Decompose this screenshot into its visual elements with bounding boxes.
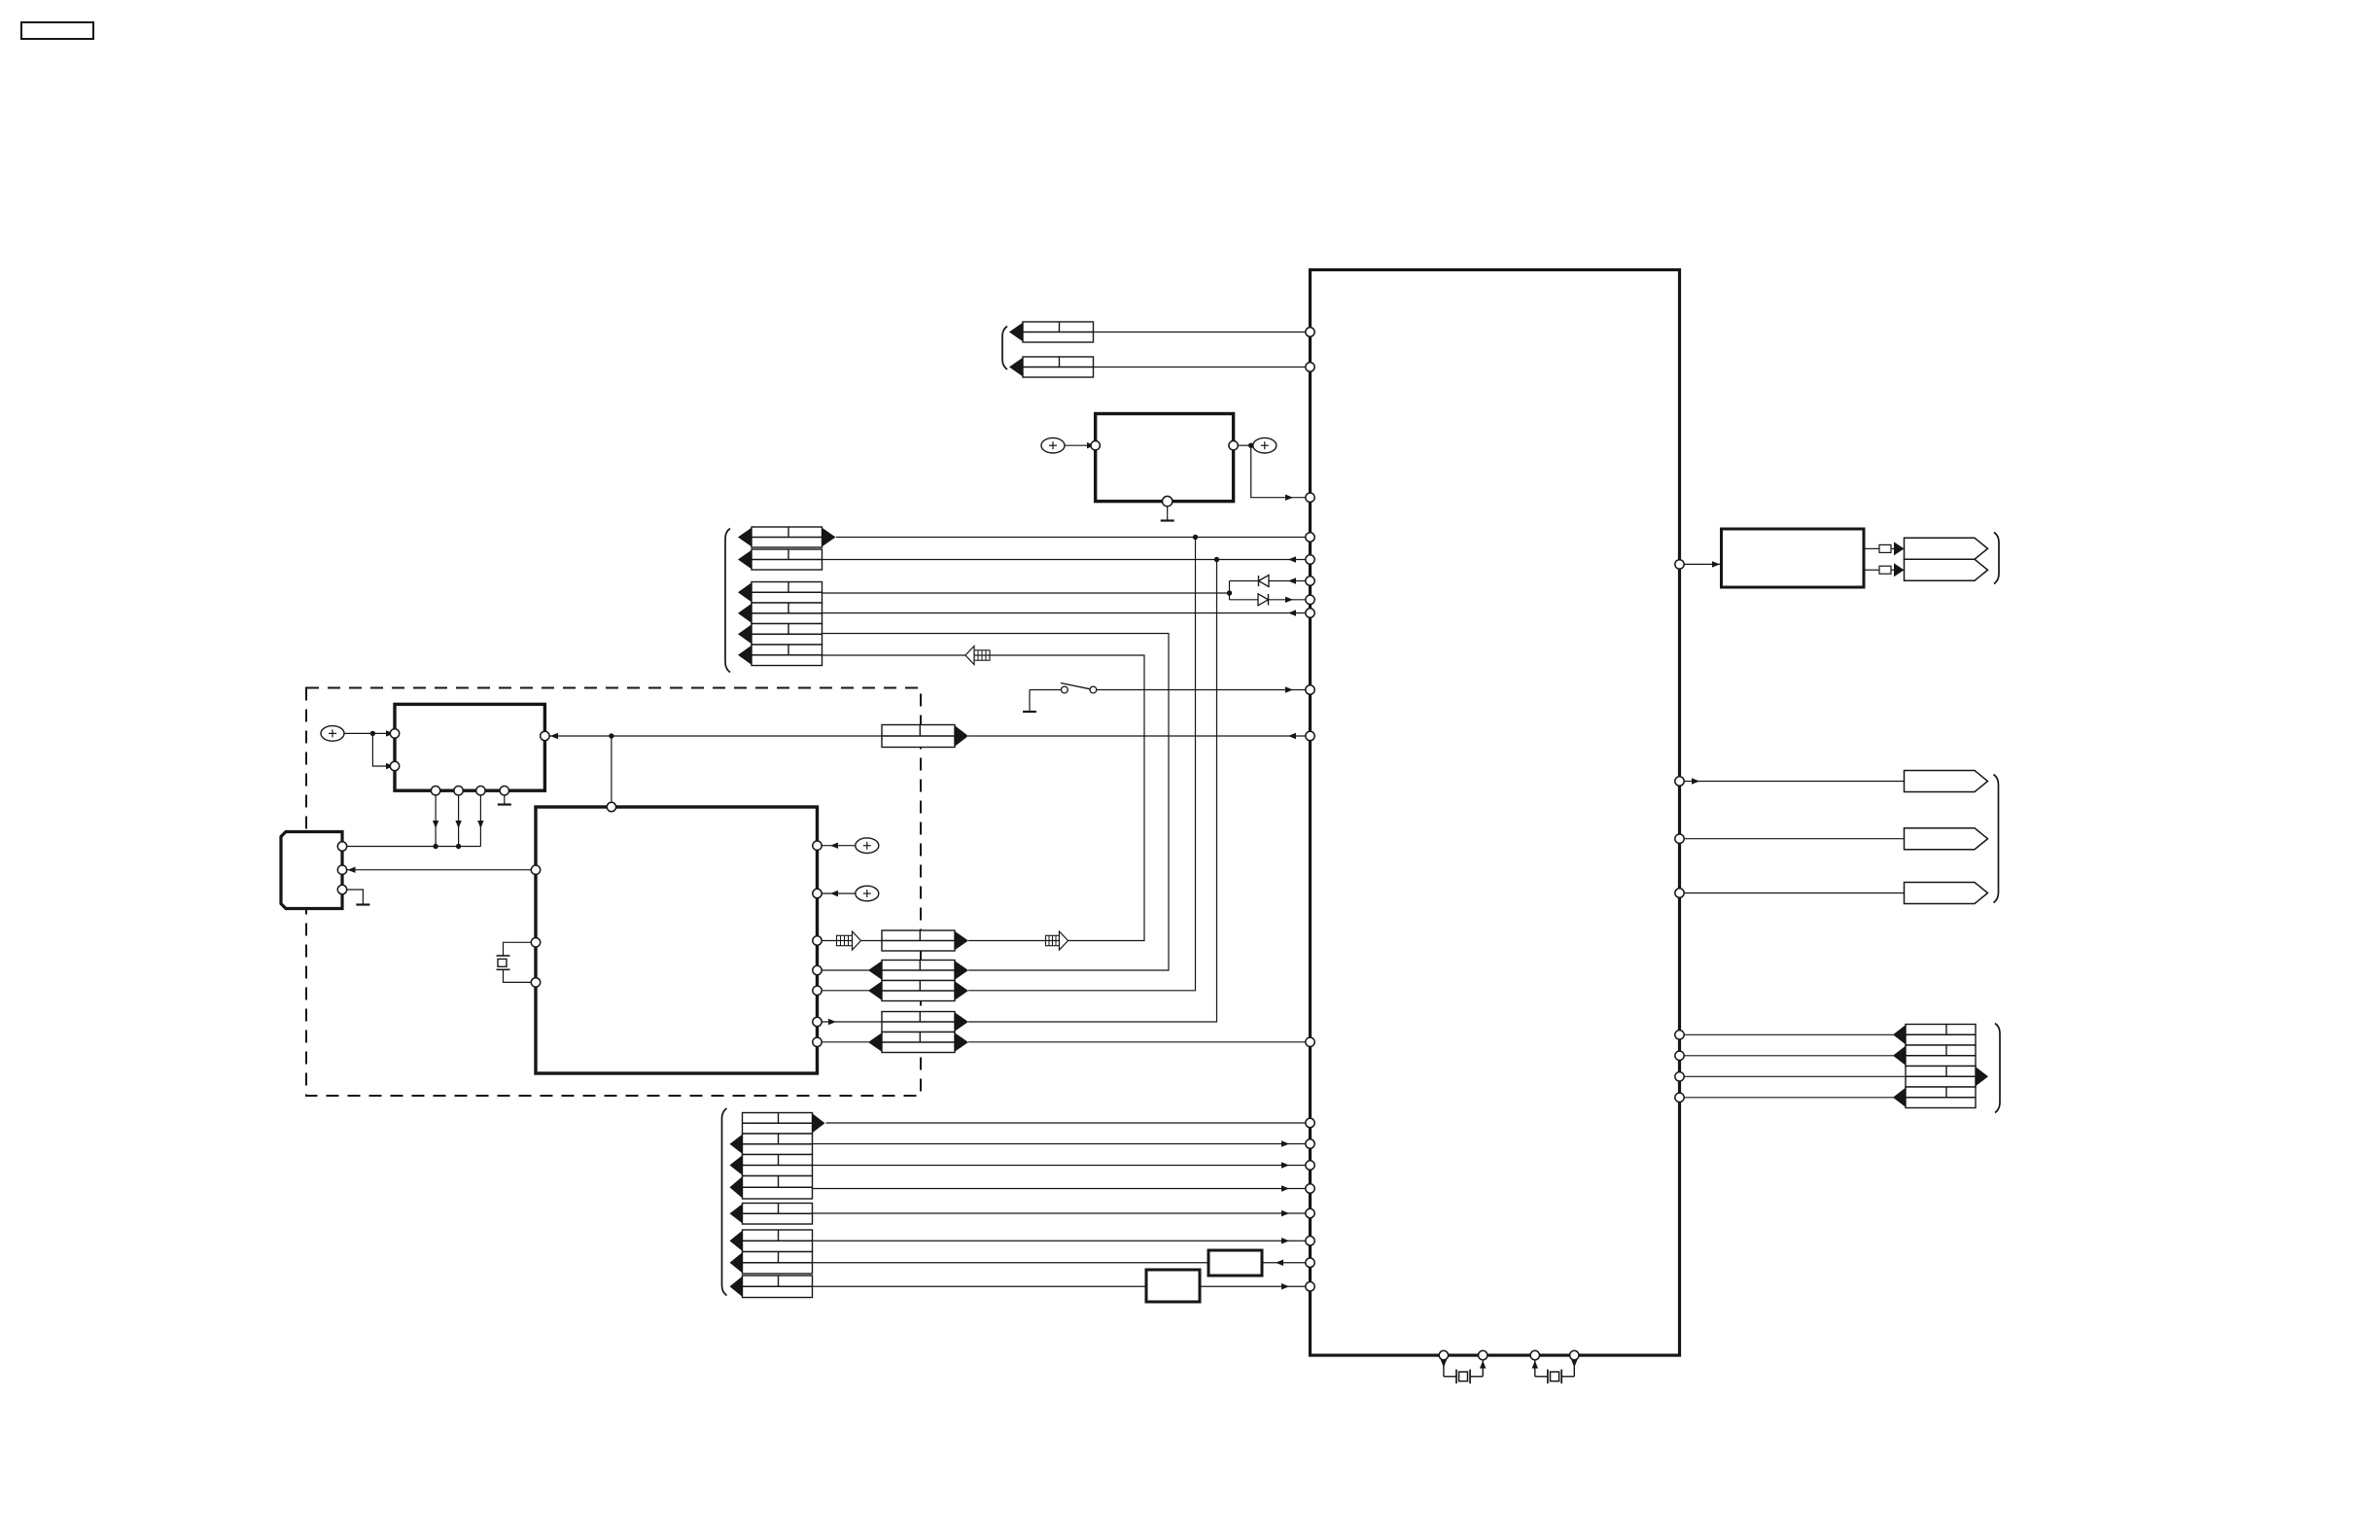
sub-MCU box U2: [536, 807, 818, 1073]
wire U1 to CN-G row4: [1684, 1097, 1906, 1099]
wire row C riser to CN-B row1: [968, 538, 1196, 991]
pin (U1 left): [1306, 1037, 1314, 1046]
pin (U2 left): [531, 938, 540, 947]
regulator bottom pin stub 2: [458, 790, 460, 846]
supply oval + (left of B1): [1041, 437, 1065, 453]
shield marker row A left: [837, 935, 853, 945]
switch SW1 lever: [1061, 683, 1091, 689]
pin (U1 right): [1675, 1093, 1684, 1102]
battery box B1: [1096, 414, 1234, 502]
connector CN-F row 6: [743, 1230, 813, 1252]
page frame / revision box (top-left): [21, 22, 93, 39]
connector CN-F row 8: [743, 1276, 813, 1298]
junction node riser D: [1214, 557, 1219, 562]
pin (U1 left): [1306, 1237, 1314, 1245]
wire U2 to row E: [822, 1041, 869, 1043]
pin (U2 right): [813, 1017, 822, 1026]
wire CN-F row1 to U1: [826, 1122, 1311, 1124]
pin (U1 bottom): [1479, 1350, 1487, 1359]
pin (U1 left): [1306, 1139, 1314, 1148]
diode pair common vertical: [1229, 581, 1231, 600]
main IC block U1 (microcontroller): [1311, 270, 1680, 1356]
wire FB2 to U1: [1200, 1285, 1311, 1287]
pin (U1 left): [1306, 328, 1314, 336]
chevron connector T1: [1905, 771, 1988, 792]
wire U1 to CN-G row2: [1684, 1055, 1906, 1057]
wire oval to U2: [822, 845, 856, 847]
wire CN-F row2 to U1: [813, 1143, 1311, 1145]
wire U2 to row C: [822, 990, 869, 992]
wire CN-C row1 to diode node: [822, 592, 1230, 594]
wire diode D2 line to U1: [1230, 599, 1311, 601]
wire row E to U1: [968, 1041, 1311, 1043]
connector CN-F row 1: [743, 1113, 813, 1135]
fuse F1: [1879, 544, 1891, 552]
connector CN-B row 1 (bidirectional): [752, 527, 822, 547]
connector CN-F row 2: [743, 1134, 813, 1155]
pin (U3 out): [541, 731, 549, 740]
bracket for CN-G: [1995, 1024, 2000, 1113]
fuse F2: [1879, 566, 1891, 574]
pin (U1 left): [1306, 363, 1314, 371]
connector J1 (chamfered housing): [281, 832, 342, 909]
pin (U1 left): [1306, 1184, 1314, 1193]
regulator box U3: [395, 704, 544, 790]
connector CN-C row 3: [752, 624, 822, 646]
wire U2 to row B: [822, 969, 869, 971]
bracket for driver outputs: [1994, 533, 1999, 584]
regulator ground stub: [504, 790, 506, 804]
wire U2 to row D: [822, 1021, 882, 1023]
wire U1 to chevron T2: [1684, 838, 1904, 840]
wire VCC to U1 pin: [968, 735, 1311, 737]
dashed module boundary: [306, 688, 921, 1097]
pin (U1 left): [1306, 1258, 1314, 1267]
pin (U1 left): [1306, 533, 1314, 542]
pin (J1): [337, 842, 346, 851]
driver box U4: [1722, 529, 1865, 587]
pin (U2 right): [813, 889, 822, 897]
wire U1 to CN-G row1: [1684, 1033, 1906, 1035]
wire row D riser to CN-B row2: [968, 560, 1217, 1023]
switch ground: [1029, 690, 1031, 712]
junction node VCC: [609, 733, 613, 738]
wire CN-A row2 to U1: [1094, 367, 1311, 368]
pin (B1 left): [1091, 441, 1100, 450]
connector CN-E row B: [882, 961, 955, 981]
wire U1 to CN-G row3: [1684, 1075, 1906, 1077]
wire CN-F row5 to U1: [813, 1212, 1311, 1214]
wire U4 out1: [1864, 547, 1879, 549]
wire J1 pin2 to U2: [347, 869, 536, 871]
filter box FB1: [1208, 1250, 1262, 1276]
regulator bottom pin stub 3: [479, 790, 481, 846]
net wire to connector J1: [342, 846, 480, 848]
diode D1 (cathode left): [1258, 576, 1260, 586]
pin (U3 bottom): [454, 787, 463, 795]
connector CN-E row D: [882, 1012, 955, 1032]
switch SW1 contacts: [1030, 689, 1062, 691]
junction node riser C: [1193, 535, 1198, 540]
crystal circuit Y2: [1534, 1355, 1536, 1377]
connector CN-C row 4: [752, 645, 822, 666]
pin (U1 bottom): [1439, 1350, 1448, 1359]
pin (J1): [337, 865, 346, 874]
pin (U1 right): [1675, 1051, 1684, 1060]
wire CN-F row8 segment: [813, 1285, 1147, 1287]
shield marker on row A wire: [1046, 935, 1060, 945]
signal arrow out1: [1894, 542, 1905, 555]
pin (U1 left): [1306, 493, 1314, 502]
connector CN-E row A: [882, 930, 955, 951]
wire U1 to driver box: [1684, 563, 1721, 565]
wire oval to regulator pin1: [344, 732, 393, 734]
wire diode D1 line to U1: [1230, 580, 1311, 582]
connector CN-F row 5: [743, 1204, 813, 1225]
wire CN-F row7 segment: [813, 1262, 1209, 1264]
bracket for bottom connector group: [722, 1108, 727, 1296]
pin (U3 bottom): [476, 787, 485, 795]
wire oval to U2: [822, 892, 856, 894]
pin (U3 in1): [390, 729, 399, 738]
bracket for connector groups B/C: [725, 529, 730, 673]
wire FB1 to U1: [1262, 1262, 1311, 1264]
pin (U1 right): [1675, 889, 1684, 897]
wire branch to regulator pin2: [372, 733, 393, 766]
wire CN-F row3 to U1: [813, 1165, 1311, 1167]
pin (U2 top): [607, 802, 615, 811]
wire oval to B1 pin: [1065, 444, 1094, 446]
connector CN-E row E: [882, 1032, 955, 1053]
pin (U1 bottom): [1530, 1350, 1539, 1359]
connector CN-B row 2: [752, 549, 822, 570]
diode D2 (cathode right): [1258, 594, 1269, 606]
wire U1 to chevron T3: [1684, 892, 1904, 894]
connector CN-E row C: [882, 981, 955, 1001]
pin (U1 left): [1306, 595, 1314, 604]
pin (U3 bottom): [431, 787, 439, 795]
wire CN-B row1 to U1: [836, 537, 1311, 539]
chevron connector T2: [1905, 828, 1988, 850]
supply oval + (regulator input): [321, 726, 344, 742]
junction node: [456, 844, 461, 849]
pin (U1 left): [1306, 577, 1314, 585]
junction node diodes: [1227, 590, 1232, 595]
connector CN-D row (VCC, on dashed border): [882, 725, 955, 748]
connector CN-F row 3: [743, 1155, 813, 1176]
chevron connector out2: [1905, 559, 1988, 580]
wire switch to U1: [1097, 689, 1311, 691]
pin (J1): [337, 885, 346, 893]
connector CN-C row 1: [752, 582, 822, 604]
pin (U1 right): [1675, 560, 1684, 569]
connector CN-C row 2: [752, 603, 822, 624]
pin (U1 left): [1306, 609, 1314, 617]
wire B1 out to oval and +: [1238, 444, 1253, 446]
connector CN-G row 4: [1906, 1087, 1976, 1108]
crystal X1: [497, 955, 510, 957]
pin (U2 right): [813, 841, 822, 850]
pin (U2 left): [531, 865, 540, 874]
crystal circuit Y1: [1443, 1355, 1445, 1377]
pin (U1 right): [1675, 1031, 1684, 1039]
pin (B1 ground): [1163, 496, 1172, 506]
supply oval + (U2 pin b): [856, 886, 879, 901]
wire CN-C row3 riser to conn row B: [822, 634, 1170, 971]
connector CN-F row 4: [743, 1176, 813, 1200]
pin (B1 right): [1229, 441, 1238, 450]
pin (U1 left): [1306, 685, 1314, 694]
pin (U1 left): [1306, 1118, 1314, 1127]
pin (U1 left): [1306, 1161, 1314, 1170]
pin (U3 in2): [390, 761, 399, 770]
pin (U2 right): [813, 1037, 822, 1046]
wire CN-A row1 to U1: [1094, 332, 1311, 333]
wire CN-B row2 to U1: [822, 559, 1311, 561]
pin (U2 right): [813, 986, 822, 995]
wire B1 branch down to U1 pin: [1251, 445, 1311, 498]
junction node: [1248, 443, 1253, 448]
connector CN-F row 7: [743, 1252, 813, 1275]
net VCC wire regulator to U1: [549, 735, 882, 737]
junction node: [433, 844, 437, 849]
ground stub under B1: [1167, 507, 1169, 521]
filter box FB2: [1146, 1270, 1200, 1302]
wire U1 to chevron T1: [1684, 781, 1904, 783]
bracket for chevron trio: [1994, 775, 1999, 903]
shield marker on row4 wire: [974, 650, 990, 660]
wire F1 to arrow: [1891, 547, 1895, 549]
pin (U2 right): [813, 965, 822, 974]
pin (U1 left): [1306, 731, 1314, 740]
wire CN-C row4 riser to conn row A: [822, 655, 1145, 941]
pin (U2 right): [813, 936, 822, 945]
connector CN-G row 3: [1906, 1067, 1976, 1088]
pin (U1 left): [1306, 1282, 1314, 1291]
pin (U1 right): [1675, 1072, 1684, 1081]
pin (U1 bottom): [1570, 1350, 1579, 1359]
pin (U3 bottom): [500, 787, 508, 795]
wire U2 to row A: [822, 940, 882, 942]
wire J1 pin3 to ground: [342, 890, 363, 904]
junction node reg input: [370, 731, 375, 736]
pin (U2 left): [531, 978, 540, 987]
wire CN-F row6 to U1: [813, 1240, 1311, 1242]
wire F2 to arrow: [1891, 569, 1895, 571]
wire U4 out2: [1864, 569, 1879, 571]
chevron connector T3: [1905, 883, 1988, 904]
pin (U1 left): [1306, 1208, 1314, 1217]
connector CN-A pin row 1: [1023, 322, 1094, 342]
pin (U1 right): [1675, 777, 1684, 786]
wire VCC down to U2 top pin: [611, 736, 612, 807]
pin (U1 left): [1306, 555, 1314, 564]
supply oval + (U2 pin a): [856, 838, 879, 854]
wire CN-F row4 to U1: [813, 1188, 1311, 1190]
chevron connector out1: [1905, 538, 1988, 559]
wire CN-C row2 to U1: [822, 612, 1311, 614]
pin (U1 right): [1675, 834, 1684, 843]
connector CN-G row 1: [1906, 1025, 1976, 1046]
connector CN-A pin row 2: [1023, 357, 1094, 377]
signal arrow out2: [1894, 563, 1905, 577]
bracket for connector group A: [1002, 327, 1007, 370]
regulator bottom pin stub 1: [435, 790, 437, 846]
supply oval + (right of B1): [1253, 437, 1277, 453]
crystal X1 loop: [504, 942, 537, 956]
connector CN-G row 2: [1906, 1045, 1976, 1067]
